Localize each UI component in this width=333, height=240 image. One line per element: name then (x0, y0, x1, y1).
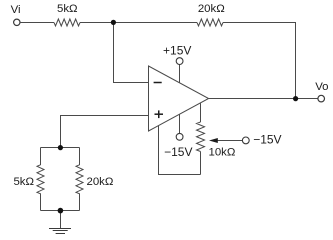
wire junction down to inverting input (114, 23, 149, 83)
wire 20k to right corner (223, 22, 296, 24)
wire right branch down to R 20k (79, 148, 81, 166)
wire noninverting input (61, 116, 149, 148)
wire offset-null pin5 down to 10k (200, 103, 202, 122)
svg-text:−15V: −15V (253, 132, 281, 146)
terminal Vo (318, 95, 325, 102)
svg-text:20kΩ: 20kΩ (198, 3, 225, 15)
wire op-amp bottom edge to -15V supply (179, 114, 181, 133)
wire +15V supply to op-amp top edge (179, 65, 181, 83)
junction node C (bias bottom) (58, 208, 64, 214)
wire left branch down to R 5k (40, 148, 42, 166)
wire R20k bias to bottom rail (79, 193, 81, 210)
op-amp U1 triangle (149, 66, 209, 131)
junction node output (293, 96, 298, 101)
junction node B (bias top) (58, 145, 63, 150)
svg-text:+15V: +15V (163, 44, 191, 58)
wire R5k bias to bottom rail (40, 193, 42, 210)
wiper arrow head (209, 138, 218, 143)
svg-text:Vo: Vo (315, 81, 328, 93)
op-amp plus sign (155, 110, 164, 118)
terminal -15V supply (176, 133, 183, 140)
resistor 20k (bias, vertical) (76, 165, 83, 194)
svg-text:5kΩ: 5kΩ (13, 176, 34, 188)
svg-text:10kΩ: 10kΩ (209, 147, 236, 159)
svg-text:5kΩ: 5kΩ (57, 3, 78, 15)
wire offset-null pin1 down and across (159, 125, 201, 174)
terminal -15V (offset) (242, 137, 249, 144)
wire bottom rail (41, 210, 80, 212)
wire wiper to -15V terminal (217, 140, 243, 142)
resistor 5k (bias, vertical) (37, 165, 44, 194)
wire output from apex to Vo (209, 98, 318, 100)
terminal +15V (176, 58, 183, 65)
wire ground stub (60, 211, 62, 229)
resistor 5k (input, horizontal) (54, 19, 80, 26)
wire 10k bottom to rail (200, 152, 202, 175)
ground (49, 229, 71, 234)
svg-text:−15V: −15V (164, 145, 192, 159)
wire R5k to junction and on to feedback corner (80, 22, 197, 24)
svg-text:20kΩ: 20kΩ (87, 176, 114, 188)
resistor 20k (feedback, horizontal) (197, 19, 223, 26)
op-amp minus sign (154, 82, 162, 84)
wire Vi to R 5k (20, 22, 54, 24)
junction node A (input summing) (111, 20, 116, 25)
svg-text:Vi: Vi (11, 4, 21, 16)
wire right corner down to output node (295, 23, 297, 99)
resistor 10k (offset null, vertical) (197, 122, 205, 151)
wire top of parallel network (41, 147, 80, 149)
terminal Vi (14, 19, 20, 25)
